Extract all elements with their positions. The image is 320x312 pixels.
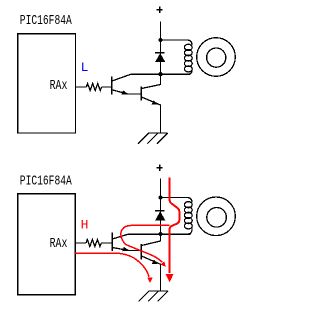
- transistor Q3 collector (bottom): [112, 234, 128, 239]
- resistor R2 (bottom): [86, 240, 101, 247]
- motor M1 inner (top): [207, 48, 226, 67]
- transistor Q2 emitter with arrow (top): [141, 97, 160, 133]
- transistor Q2 collector (top): [141, 74, 160, 88]
- ground (bottom): [139, 291, 169, 302]
- coil bottom wire (top): [161, 70, 193, 75]
- plus symbol (bottom): [157, 165, 163, 171]
- red collector-current sweep around transistors: [121, 225, 170, 262]
- resistor R1 (top): [86, 84, 101, 91]
- flyback diode D1 (top): [155, 52, 164, 54]
- red base-current path from RAx: [75, 253, 149, 277]
- junction node (bottom, upper): [158, 195, 162, 199]
- transistor Q3 emitter with arrow (bottom): [112, 248, 141, 251]
- transistor Q1 base bar (top): [111, 76, 113, 94]
- supply wire from + (bottom): [160, 178, 162, 234]
- wire RAx to resistor (bottom): [75, 242, 86, 244]
- red supply-current vertical from +: [170, 178, 180, 273]
- svg-text:L: L: [81, 60, 89, 75]
- IC box U1 (top): [18, 34, 76, 133]
- plus symbol (top): [157, 6, 163, 12]
- transistor Q4 collector (bottom): [141, 234, 160, 245]
- svg-text:PIC16F84A: PIC16F84A: [20, 174, 73, 189]
- motor M1 outer (top): [197, 38, 236, 77]
- wire RAx to resistor (top): [75, 86, 86, 88]
- svg-text:H: H: [81, 218, 89, 233]
- coil bottom wire (bottom): [161, 228, 193, 235]
- svg-text:RAx: RAx: [50, 79, 68, 94]
- motor M2 outer (bottom): [197, 197, 236, 236]
- wire resistor to Q3 base (bottom): [101, 242, 112, 244]
- red big arrowhead to ground: [166, 274, 174, 282]
- IC box U2 (bottom): [18, 194, 76, 295]
- wire resistor to Q1 base (top): [101, 86, 111, 88]
- coil top wire (bottom): [161, 198, 193, 203]
- junction node (bottom, lower): [158, 232, 162, 236]
- relay coil L1 loops (top): [184, 44, 192, 72]
- svg-text:PIC16F84A: PIC16F84A: [20, 14, 73, 29]
- transistor Q4 emitter with arrow (bottom): [141, 256, 160, 291]
- transistor Q3 base bar (bottom): [111, 233, 113, 251]
- collector rail (bottom): [129, 233, 191, 235]
- red base-current arrowhead: [147, 277, 152, 283]
- motor M2 inner (bottom): [207, 208, 227, 228]
- collector rail (top): [131, 73, 190, 75]
- transistor Q1 emitter with arrow (top): [112, 90, 141, 94]
- red collector-current arrowhead: [161, 261, 166, 267]
- relay coil L2 loops (bottom): [184, 202, 192, 229]
- transistor Q4 base bar (bottom): [140, 244, 142, 260]
- junction node (top, lower): [158, 72, 162, 76]
- flyback diode D2 (bottom): [155, 210, 164, 212]
- supply wire from + (top): [160, 22, 162, 75]
- svg-text:RAx: RAx: [50, 237, 68, 252]
- transistor Q1 collector (top): [112, 74, 131, 81]
- junction node (top, upper): [158, 38, 162, 42]
- coil top wire (top): [161, 40, 193, 45]
- ground (top): [138, 133, 168, 144]
- transistor Q2 base bar (top): [140, 87, 142, 101]
